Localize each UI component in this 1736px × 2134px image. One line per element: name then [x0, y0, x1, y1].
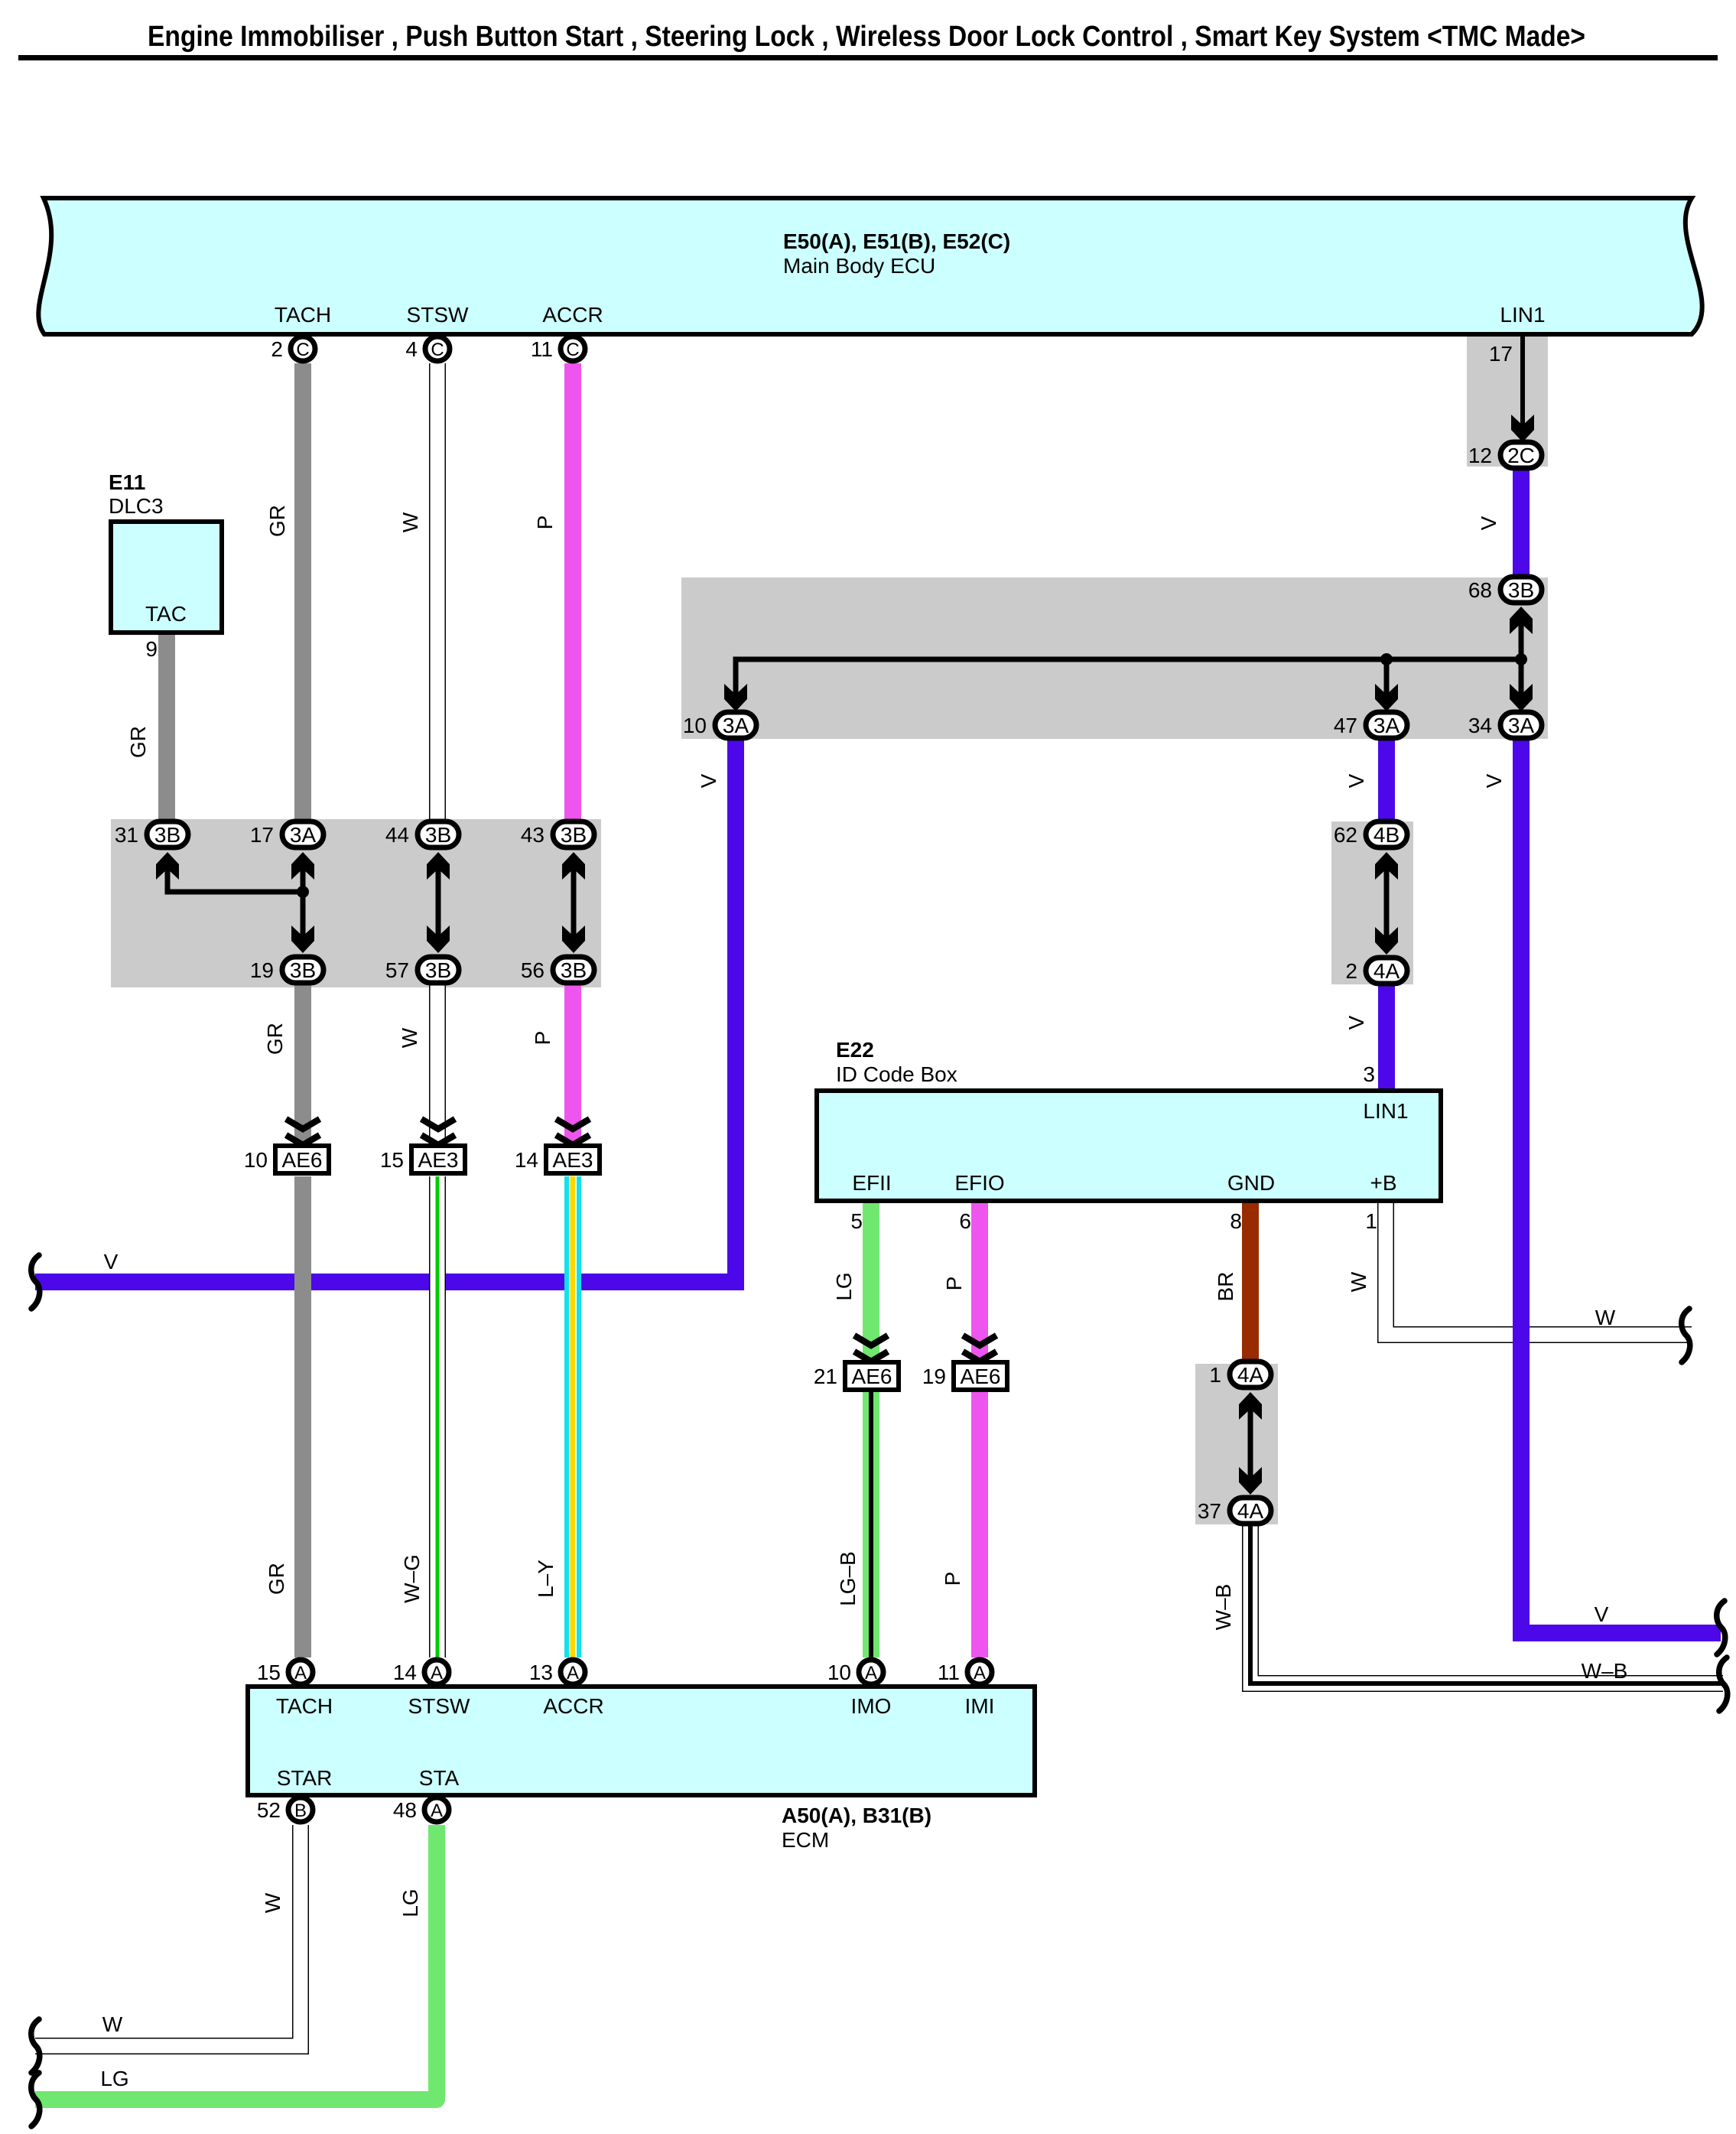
svg-text:LIN1: LIN1 — [1500, 303, 1545, 327]
svg-text:LG–B: LG–B — [836, 1551, 860, 1606]
wire W from ECM STAR to left edge — [35, 1825, 301, 2046]
svg-text:34: 34 — [1468, 714, 1492, 737]
ECU pin circle 11 C — [531, 337, 585, 361]
svg-text:BR: BR — [1214, 1272, 1237, 1302]
svg-text:13: 13 — [529, 1661, 553, 1684]
svg-text:19: 19 — [922, 1365, 946, 1388]
connector oval 31 3B — [115, 821, 188, 847]
splice box 15 AE3 — [380, 1146, 465, 1173]
double arrow 43-3B to 56-3B — [562, 852, 585, 953]
svg-text:3A: 3A — [290, 823, 317, 847]
svg-text:17: 17 — [1489, 342, 1513, 366]
wire arrow into 31-3B — [156, 852, 179, 880]
connector oval 19 3B — [250, 957, 323, 983]
svg-text:17: 17 — [250, 823, 274, 847]
wire V from 2-4A to E22 LIN1 — [1378, 982, 1395, 1091]
svg-text:V: V — [1595, 1602, 1609, 1626]
wire V from 2C to 68-3B — [1513, 467, 1530, 581]
svg-text:V: V — [1344, 1015, 1368, 1030]
svg-text:47: 47 — [1334, 714, 1357, 737]
cut mark squiggle LG bottom left — [31, 2073, 40, 2126]
svg-text:15: 15 — [380, 1148, 404, 1172]
svg-text:ECM: ECM — [782, 1828, 829, 1852]
svg-text:3B: 3B — [1508, 578, 1534, 602]
connector oval 43 3B — [521, 821, 594, 847]
svg-text:W: W — [102, 2012, 123, 2036]
svg-text:2: 2 — [271, 337, 283, 361]
svg-text:B: B — [294, 1801, 307, 1821]
wire GR TACH middle — [294, 981, 311, 1144]
svg-text:P: P — [941, 1572, 964, 1586]
double arrow 44-3B to 57-3B — [427, 852, 450, 953]
band A net lines — [724, 607, 1533, 711]
svg-text:AE6: AE6 — [852, 1365, 892, 1388]
svg-text:11: 11 — [938, 1661, 960, 1684]
wire V from 47-3A to 62-4B — [1378, 737, 1395, 823]
wire bus horizontal 31-3B to 17-3A — [167, 865, 303, 892]
svg-text:E50(A), E51(B), E52(C): E50(A), E51(B), E52(C) — [783, 229, 1010, 253]
wire arrow into 34-3A — [1519, 659, 1524, 698]
title underline — [18, 55, 1718, 60]
ECU pin circle 2 C — [271, 337, 315, 361]
svg-text:LG: LG — [100, 2067, 128, 2090]
gray box around connectors 4B/4A — [1331, 821, 1413, 984]
svg-text:44: 44 — [385, 823, 409, 847]
ECM pin circle 13 A — [529, 1660, 585, 1684]
svg-text:V: V — [1344, 773, 1368, 788]
svg-text:ACCR: ACCR — [542, 303, 603, 327]
svg-text:ID Code Box: ID Code Box — [836, 1062, 957, 1086]
svg-text:LG: LG — [398, 1888, 422, 1917]
double arrow 1-4A to 37-4A — [1239, 1392, 1262, 1495]
svg-text:4A: 4A — [1374, 959, 1400, 983]
svg-text:GR: GR — [265, 505, 289, 537]
splice chevrons into 19 AE6 — [963, 1335, 996, 1361]
svg-text:48: 48 — [393, 1798, 417, 1822]
wire arrow into 17-3A — [301, 865, 306, 892]
junction-block gray band B (left) — [111, 819, 601, 987]
wire bus horizontal 10-3A to 34-3A — [736, 659, 1521, 698]
svg-text:GR: GR — [126, 726, 150, 758]
svg-text:2: 2 — [1345, 959, 1357, 983]
connector oval 34 3A — [1468, 712, 1542, 738]
svg-text:AE3: AE3 — [553, 1148, 593, 1172]
wire GR TACH lower — [294, 1176, 311, 1657]
svg-text:3B: 3B — [154, 823, 180, 847]
wire GR TACH upper — [294, 363, 311, 823]
wire GR from DLC3 TAC — [158, 627, 175, 823]
svg-text:21: 21 — [814, 1365, 837, 1388]
connector oval 56 3B — [521, 957, 594, 983]
svg-text:3: 3 — [1363, 1062, 1375, 1086]
svg-text:V: V — [1477, 516, 1500, 530]
svg-text:E11: E11 — [109, 470, 145, 494]
svg-text:STA: STA — [419, 1766, 460, 1790]
wire LG-B to ECM IMO — [863, 1391, 879, 1657]
svg-text:C: C — [431, 340, 444, 360]
wire W STSW middle — [429, 981, 446, 1144]
svg-text:W: W — [261, 1892, 284, 1913]
wire P to ECM IMI — [971, 1391, 988, 1657]
svg-text:STSW: STSW — [408, 1694, 470, 1718]
svg-text:12: 12 — [1468, 444, 1492, 467]
svg-text:W–G: W–G — [400, 1554, 424, 1603]
splice chevrons into 21 AE6 — [854, 1335, 888, 1361]
connector oval 47 3A — [1334, 712, 1407, 738]
wire P from E22 EFIO — [971, 1201, 988, 1363]
svg-text:52: 52 — [257, 1798, 281, 1822]
svg-text:W: W — [398, 512, 422, 532]
svg-text:L–Y: L–Y — [534, 1560, 558, 1598]
svg-text:57: 57 — [385, 958, 409, 982]
svg-text:V: V — [104, 1250, 119, 1274]
splice box 14 AE3 — [515, 1146, 600, 1173]
connector oval 37 4A — [1198, 1498, 1271, 1524]
svg-text:C: C — [566, 340, 579, 360]
Main Body ECU box E50/E51/E52 — [38, 198, 1702, 334]
svg-text:3B: 3B — [561, 958, 587, 982]
wire W-B from 37-4A to right edge — [1250, 1524, 1723, 1683]
ECM pin circle 11 A — [938, 1660, 992, 1684]
svg-text:TAC: TAC — [145, 602, 187, 626]
splice box 10 AE6 — [244, 1146, 329, 1173]
svg-text:IMO: IMO — [851, 1694, 892, 1718]
gray box around connector 2C — [1467, 337, 1548, 467]
svg-text:W–B: W–B — [1211, 1584, 1235, 1631]
wire W STSW upper — [429, 363, 446, 823]
junction dot at 34 branch — [1515, 653, 1527, 665]
svg-text:A: A — [294, 1663, 307, 1683]
junction-block gray band A (right upper) — [681, 577, 1548, 739]
connector oval 10 3A — [683, 712, 756, 738]
svg-text:W: W — [1347, 1271, 1370, 1292]
svg-text:10: 10 — [827, 1661, 851, 1684]
splice chevrons into 15 AE3 — [421, 1119, 455, 1145]
connector oval 17 3A — [250, 821, 323, 847]
connector oval 44 3B — [385, 821, 459, 847]
svg-text:STSW: STSW — [407, 303, 469, 327]
double arrow 62-4B to 2-4A — [1375, 852, 1398, 955]
svg-text:E22: E22 — [836, 1038, 874, 1062]
cut mark squiggle W right — [1682, 1309, 1690, 1362]
svg-text:TACH: TACH — [276, 1694, 333, 1718]
svg-text:4B: 4B — [1374, 823, 1400, 847]
svg-text:31: 31 — [115, 823, 138, 847]
cut mark squiggle V bottom right — [1717, 1601, 1725, 1654]
svg-text:V: V — [1482, 773, 1506, 788]
cut mark squiggle V left — [31, 1255, 40, 1309]
wire W from E22 +B to right edge — [1386, 1201, 1692, 1335]
svg-text:AE6: AE6 — [282, 1148, 323, 1172]
svg-text:3B: 3B — [290, 958, 316, 982]
E22 ID Code Box — [817, 1038, 1441, 1233]
svg-text:4: 4 — [405, 337, 418, 361]
svg-text:W–B: W–B — [1582, 1659, 1628, 1683]
svg-text:P: P — [942, 1277, 966, 1291]
svg-text:3A: 3A — [723, 714, 749, 737]
svg-text:W: W — [1595, 1306, 1616, 1329]
svg-text:P: P — [531, 1031, 554, 1046]
svg-text:A: A — [865, 1663, 877, 1683]
svg-text:+B: +B — [1370, 1171, 1396, 1195]
svg-text:56: 56 — [521, 958, 545, 982]
wire arrow into 19-3B — [301, 892, 306, 941]
svg-text:EFIO: EFIO — [954, 1171, 1004, 1195]
ECM pin circle 15 A — [257, 1660, 313, 1684]
svg-text:DLC3: DLC3 — [109, 494, 164, 518]
connector oval 1 4A — [1209, 1361, 1271, 1387]
E11 DLC3 box — [109, 470, 222, 661]
svg-text:A50(A), B31(B): A50(A), B31(B) — [782, 1804, 931, 1827]
cut mark squiggle W-B bottom right — [1719, 1657, 1728, 1711]
svg-text:GR: GR — [265, 1563, 288, 1595]
svg-text:GR: GR — [263, 1023, 287, 1055]
LIN1 drop line pin 17 — [1489, 337, 1534, 442]
svg-text:43: 43 — [521, 823, 545, 847]
ECM box A50/B31 — [248, 1687, 1035, 1852]
wire arrow into 47-3A — [1384, 659, 1390, 698]
ECU pin circle 4 C — [405, 337, 450, 361]
svg-text:10: 10 — [244, 1148, 268, 1172]
svg-text:Engine Immobiliser , Push Butt: Engine Immobiliser , Push Button Start ,… — [148, 21, 1585, 53]
svg-text:9: 9 — [145, 637, 158, 661]
svg-text:STAR: STAR — [277, 1766, 333, 1790]
cut mark squiggle W bottom left — [31, 2019, 40, 2073]
svg-text:6: 6 — [959, 1209, 971, 1233]
svg-text:3A: 3A — [1508, 714, 1535, 737]
svg-text:Main Body ECU: Main Body ECU — [783, 254, 935, 278]
splice chevrons into 14 AE3 — [556, 1119, 590, 1145]
svg-text:GND: GND — [1227, 1171, 1275, 1195]
svg-text:A: A — [431, 1663, 443, 1683]
svg-text:IMI: IMI — [965, 1694, 995, 1718]
gray box around connectors 4A/4A — [1195, 1364, 1278, 1524]
svg-text:AE3: AE3 — [418, 1148, 459, 1172]
svg-text:A: A — [431, 1801, 443, 1821]
svg-text:3A: 3A — [1374, 714, 1400, 737]
wire arrow into 10-3A — [724, 684, 747, 711]
wire BR from E22 GND — [1242, 1201, 1259, 1363]
ECM pin circle 48 A — [393, 1797, 449, 1822]
svg-text:1: 1 — [1365, 1209, 1377, 1233]
svg-text:3B: 3B — [425, 958, 451, 982]
splice chevrons into 10 AE6 — [286, 1119, 320, 1145]
svg-text:2C: 2C — [1507, 444, 1535, 467]
svg-text:EFII: EFII — [852, 1171, 891, 1195]
svg-text:14: 14 — [393, 1661, 417, 1684]
junction dot at 47 branch — [1380, 653, 1393, 665]
connector oval 68 3B — [1468, 577, 1542, 603]
svg-text:TACH: TACH — [275, 303, 331, 327]
svg-text:A: A — [567, 1663, 579, 1683]
svg-text:68: 68 — [1468, 578, 1492, 602]
svg-text:15: 15 — [257, 1661, 281, 1684]
svg-text:LG: LG — [832, 1272, 856, 1300]
ECM pin circle 14 A — [393, 1660, 449, 1684]
svg-text:AE6: AE6 — [961, 1365, 1001, 1388]
wire LG from E22 EFII — [863, 1201, 879, 1363]
svg-text:19: 19 — [250, 958, 274, 982]
svg-text:3B: 3B — [425, 823, 451, 847]
wire P ACCR middle — [564, 981, 581, 1144]
svg-text:A: A — [974, 1663, 986, 1683]
junction dot TACH branch — [297, 886, 309, 898]
svg-text:14: 14 — [515, 1148, 538, 1172]
svg-text:1: 1 — [1209, 1363, 1221, 1387]
ECM pin circle 10 A — [827, 1660, 883, 1684]
splice box 21 AE6 — [814, 1362, 899, 1390]
wire W-G STSW lower — [429, 1176, 446, 1657]
svg-text:V: V — [697, 773, 720, 788]
svg-text:4A: 4A — [1237, 1363, 1264, 1387]
svg-text:3B: 3B — [561, 823, 587, 847]
wire P ACCR upper — [564, 363, 581, 823]
svg-text:37: 37 — [1198, 1499, 1221, 1523]
wire arrow into 68-3B — [1519, 620, 1524, 659]
connector oval 12 2C — [1468, 442, 1542, 468]
wire V horizontal left + vertical from node 10-3A — [35, 737, 736, 1282]
svg-text:5: 5 — [850, 1209, 863, 1233]
svg-text:4A: 4A — [1237, 1499, 1264, 1523]
ECM pin circle 52 B — [257, 1797, 313, 1822]
svg-text:P: P — [533, 516, 557, 530]
wire LG from ECM STA to left edge — [35, 1825, 437, 2100]
svg-text:W: W — [398, 1027, 421, 1048]
wire V main right column from 34-3A down and right — [1521, 734, 1721, 1633]
svg-text:LIN1: LIN1 — [1363, 1099, 1408, 1123]
svg-text:10: 10 — [683, 714, 707, 737]
connector oval 2 4A — [1345, 958, 1407, 984]
svg-text:11: 11 — [531, 337, 553, 361]
svg-text:C: C — [296, 340, 309, 360]
connector oval 62 4B — [1334, 821, 1407, 847]
svg-text:62: 62 — [1334, 823, 1357, 847]
band B net lines — [156, 852, 314, 953]
connector oval 57 3B — [385, 957, 459, 983]
svg-text:8: 8 — [1230, 1209, 1242, 1233]
svg-text:ACCR: ACCR — [543, 1694, 603, 1718]
splice box 19 AE6 — [922, 1362, 1007, 1390]
wire L-Y ACCR lower — [564, 1176, 581, 1657]
